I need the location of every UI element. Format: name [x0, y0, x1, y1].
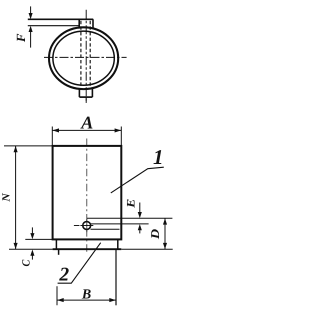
- flange bottom line: [53, 248, 122, 250]
- collar right side: [117, 239, 119, 249]
- E arrow lower (pointing up): [139, 230, 141, 233]
- neck right edge / B right extension: [115, 249, 117, 305]
- collar left side: [55, 239, 57, 249]
- C arrow upper (pointing down): [31, 227, 33, 233]
- front centerline solid segment across hole: [86, 219, 88, 232]
- hole circle: [83, 222, 91, 230]
- body bottom thin extension left (C top reference): [25, 238, 52, 240]
- C arrow lower (pointing up): [31, 256, 33, 260]
- body top line thin extension (N top reference): [4, 145, 53, 147]
- svg-text:N: N: [1, 192, 13, 203]
- leader line with shelf for label 2: [58, 243, 101, 284]
- N dimension line: [15, 146, 17, 249]
- front view: body outline: [53, 146, 122, 240]
- B dimension line: [57, 299, 116, 301]
- top view vertical centerline bottom dash: [85, 98, 87, 103]
- N arrow bottom (pointing down): [14, 243, 18, 249]
- A right extension line: [120, 127, 122, 146]
- top tab: top edge with F extension line: [28, 18, 93, 20]
- hole horizontal centerline left dash: [74, 225, 80, 227]
- B arrow left: [57, 298, 64, 302]
- D dimension line: [164, 218, 166, 249]
- top tab: right side: [92, 19, 94, 28]
- bottom tab: right side: [91, 89, 93, 97]
- svg-text:1: 1: [153, 145, 164, 169]
- svg-text:B: B: [81, 288, 91, 303]
- svg-text:A: A: [80, 112, 93, 132]
- hidden slot line left (dashed): [80, 21, 82, 89]
- tube bottom line right of hole: [91, 228, 120, 230]
- svg-text:C: C: [21, 259, 33, 266]
- hidden slot line right (dashed): [89, 21, 91, 89]
- svg-text:F: F: [14, 33, 28, 43]
- top view vertical centerline: [85, 10, 87, 103]
- E bottom reference line: [91, 223, 149, 225]
- flange bottom thin extension right (D bottom reference): [121, 248, 172, 250]
- hole horizontal centerline: [80, 225, 93, 227]
- svg-text:2: 2: [58, 265, 69, 286]
- top view horizontal centerline: [44, 56, 127, 58]
- top tab: left side: [78, 19, 80, 28]
- A arrow left: [53, 128, 60, 132]
- E/D top reference line: [87, 217, 172, 219]
- bottom tab: left side: [78, 89, 80, 97]
- svg-text:D: D: [148, 229, 162, 241]
- A left extension line: [51, 127, 53, 146]
- F arrow lower (pointing up): [30, 32, 32, 48]
- B left extension line: [56, 286, 58, 305]
- leader line for label 1: [111, 167, 164, 193]
- D arrow bottom (pointing down): [163, 243, 167, 249]
- E arrow upper (pointing down): [139, 203, 141, 213]
- front view vertical centerline: [86, 139, 88, 253]
- D arrow top (pointing up): [163, 218, 167, 224]
- N arrow top (pointing up): [14, 146, 18, 152]
- F lower extension line: [28, 25, 80, 27]
- A dimension line: [52, 129, 121, 131]
- flange bottom thin extension left (N bottom reference): [9, 248, 53, 250]
- F arrow upper (pointing down): [30, 6, 32, 13]
- neck left edge: [58, 249, 60, 255]
- top view: inner circle: [53, 31, 114, 85]
- svg-text:E: E: [125, 198, 137, 209]
- B arrow right: [109, 298, 116, 302]
- top view: outer circle: [49, 27, 118, 89]
- bottom tab: bottom edge: [79, 96, 92, 98]
- A arrow right: [115, 128, 122, 132]
